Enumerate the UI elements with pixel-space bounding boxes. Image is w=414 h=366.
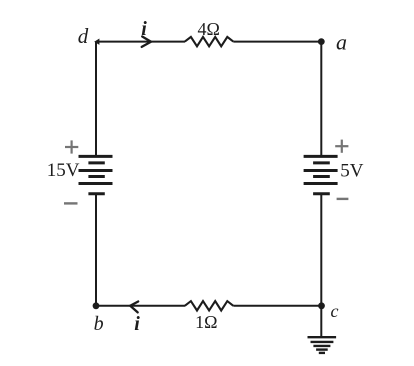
current arrow i (bottom, pointing left) (130, 302, 138, 313)
wire left lower (battery B1 down to b) (95, 194, 97, 306)
battery B1 15V plates (79, 156, 113, 193)
minus sign (B1) (64, 202, 78, 204)
wire right lower (battery B2 down to c) (320, 194, 322, 306)
plus sign (B1) (65, 140, 78, 153)
wire right upper (a down to battery B2) (320, 42, 322, 157)
node b dot (93, 302, 100, 309)
current arrow i (top, pointing right) (142, 37, 151, 47)
ground symbol (308, 337, 337, 353)
node c dot (318, 302, 325, 309)
battery B2 5V plates (304, 156, 338, 193)
svg-text:d: d (78, 24, 89, 48)
node d junction mark (94, 39, 99, 45)
svg-text:a: a (336, 30, 347, 55)
wire left upper (d down to battery B1) (95, 42, 97, 157)
node a dot (318, 38, 325, 45)
resistor R1 4ohm zigzag (185, 37, 234, 46)
svg-text:4Ω: 4Ω (198, 19, 220, 39)
svg-text:b: b (94, 313, 104, 335)
svg-text:5V: 5V (340, 161, 364, 182)
minus sign (B2) (337, 198, 349, 200)
svg-text:15V: 15V (47, 160, 80, 181)
svg-text:c: c (331, 301, 339, 321)
wire bottom-left (b to R2) (96, 305, 185, 307)
svg-text:1Ω: 1Ω (195, 312, 217, 332)
wire bottom-right (R2 to c) (233, 305, 321, 307)
svg-text:i: i (141, 18, 147, 40)
plus sign (B2) (335, 140, 348, 153)
svg-text:i: i (134, 313, 140, 335)
ground stem wire (320, 306, 322, 337)
resistor R2 1ohm zigzag (185, 301, 234, 310)
wire top-left (d to R1) (96, 41, 185, 43)
wire top-right (R1 to a) (233, 41, 321, 43)
